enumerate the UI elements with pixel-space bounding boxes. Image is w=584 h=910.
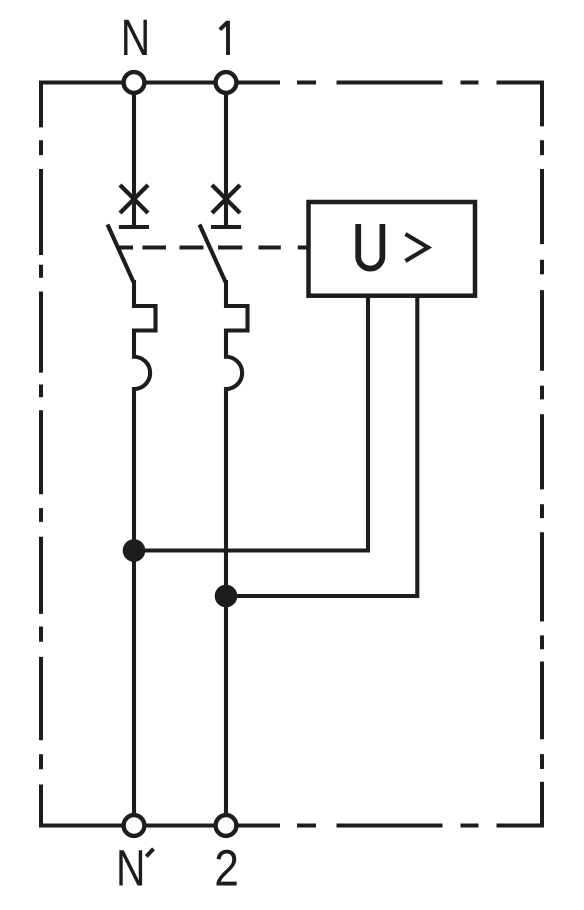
overvoltage relay U> box: [309, 202, 476, 296]
breaker function X pole 1: [212, 185, 240, 213]
wire pole 1: terminal to contact: [224, 93, 228, 228]
label 2: [214, 841, 239, 898]
wire pole N: terminal to contact: [132, 93, 136, 228]
node B junction dot: [215, 585, 238, 608]
mechanical coupling dashed line: [117, 245, 307, 249]
label N': [116, 839, 145, 896]
enclosure border bottom (dash-dot): [41, 824, 544, 828]
switch blade pole 1: [200, 225, 226, 283]
terminal N (top): [124, 72, 145, 93]
label N' prime mark: [146, 849, 153, 857]
label 1: [220, 21, 228, 55]
fixed contact bar pole 1: [211, 225, 241, 229]
thermal + magnetic trip, wire to bottom terminal, pole N: [134, 280, 156, 815]
enclosure border left (dash-dot): [39, 81, 43, 828]
svg-text:N: N: [116, 839, 145, 896]
relay label U: [358, 224, 382, 269]
terminal N' (bottom): [124, 815, 145, 836]
svg-text:2: 2: [214, 841, 239, 898]
label N: [121, 9, 150, 66]
terminal 1 (top): [216, 72, 237, 93]
breaker function X pole N: [120, 185, 148, 213]
switch blade pole N: [108, 225, 134, 283]
svg-text:N: N: [121, 9, 150, 66]
thermal + magnetic trip, wire to bottom terminal, pole 1: [226, 280, 248, 815]
terminal 2 (bottom): [216, 815, 237, 836]
enclosure border right (dash-dot): [540, 81, 544, 828]
wire node 2 to relay right lead: [226, 296, 417, 596]
fixed contact bar pole N: [119, 225, 149, 229]
relay label >: [405, 234, 428, 261]
enclosure border top (dash-dot): [41, 81, 544, 85]
wire node N to relay left lead: [134, 296, 368, 551]
node A junction dot: [123, 539, 146, 562]
